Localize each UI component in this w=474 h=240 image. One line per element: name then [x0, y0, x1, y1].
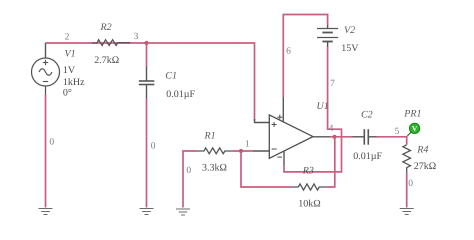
probe PR1	[407, 123, 420, 136]
svg-text:R3: R3	[302, 166, 314, 177]
op-amp V+ pin	[282, 97, 284, 122]
resistor R2	[92, 40, 130, 46]
svg-text:R2: R2	[100, 22, 112, 33]
svg-text:U1: U1	[317, 101, 329, 112]
resistor R1	[197, 148, 232, 154]
node 1 junction	[239, 149, 243, 153]
wire top rail node 2-3 to op-amp +in	[46, 43, 255, 121]
op-amp V+ supply marker	[277, 115, 282, 120]
svg-text:R4: R4	[416, 145, 428, 156]
svg-text:5: 5	[395, 127, 400, 137]
svg-text:V2: V2	[344, 25, 355, 36]
capacitor C1	[139, 67, 155, 99]
node 3 junction	[144, 41, 148, 45]
svg-text:4: 4	[329, 124, 334, 134]
svg-text:V1: V1	[65, 49, 76, 60]
svg-text:0: 0	[151, 141, 156, 151]
wire R4 to ground	[406, 174, 408, 208]
resistor R4	[403, 145, 411, 174]
svg-text:PR1: PR1	[403, 109, 421, 120]
svg-text:10kΩ: 10kΩ	[298, 199, 320, 210]
ground (below V1)	[39, 209, 53, 215]
ground (below C1)	[140, 209, 154, 215]
wire R1 left leg to ground	[183, 151, 197, 208]
svg-text:C1: C1	[165, 70, 177, 81]
ground (below R1 left)	[176, 209, 190, 215]
resistor R3	[291, 184, 327, 190]
wire 7 battery bottom to V-	[284, 47, 342, 172]
AC source V1	[32, 43, 60, 95]
node 4 junction	[332, 135, 336, 139]
svg-text:1: 1	[245, 140, 250, 150]
op-amp input - marker	[272, 148, 277, 150]
svg-text:0: 0	[49, 138, 54, 148]
svg-text:0: 0	[408, 179, 413, 189]
capacitor C2	[353, 129, 377, 145]
svg-text:0: 0	[186, 166, 191, 176]
op-amp V- supply marker	[277, 156, 282, 158]
wire node3 down to C1	[146, 43, 148, 67]
op-amp output pin	[313, 136, 330, 138]
svg-text:C2: C2	[361, 110, 373, 121]
svg-text:0.01µF: 0.01µF	[353, 151, 382, 162]
wire R1 to node 1 and op-amp -in stub	[232, 150, 253, 152]
ground (below R4)	[400, 209, 414, 215]
op-amp U1	[269, 115, 313, 158]
svg-text:2: 2	[65, 32, 70, 42]
svg-text:1kHz: 1kHz	[63, 77, 85, 88]
svg-text:2.7kΩ: 2.7kΩ	[94, 55, 119, 66]
svg-text:6: 6	[286, 46, 291, 56]
svg-text:3.3kΩ: 3.3kΩ	[202, 163, 227, 174]
op-amp V- pin	[283, 151, 285, 165]
svg-text:27kΩ: 27kΩ	[414, 161, 436, 172]
wire 6 battery top rail to V+	[283, 15, 327, 98]
wire C2 to node 5 / R4	[377, 137, 407, 145]
wire feedback R3 right leg up to output	[327, 137, 335, 187]
op-amp +in pin	[255, 119, 270, 123]
op-amp -in pin	[253, 150, 269, 152]
battery V2	[317, 25, 338, 47]
svg-text:R1: R1	[204, 131, 216, 142]
wire C1 to ground	[146, 99, 148, 208]
svg-text:3: 3	[134, 32, 139, 42]
op-amp input + marker	[272, 122, 277, 127]
svg-text:1V: 1V	[63, 65, 76, 76]
wire output node 4 to C2	[330, 136, 353, 138]
svg-text:7: 7	[330, 79, 335, 89]
svg-text:0.01µF: 0.01µF	[166, 89, 195, 100]
svg-text:V: V	[412, 124, 418, 133]
svg-text:0°: 0°	[63, 88, 72, 99]
svg-text:15V: 15V	[341, 43, 359, 54]
wire V1 bottom to ground	[45, 95, 47, 208]
wire node1 down and along to R3	[241, 151, 291, 187]
